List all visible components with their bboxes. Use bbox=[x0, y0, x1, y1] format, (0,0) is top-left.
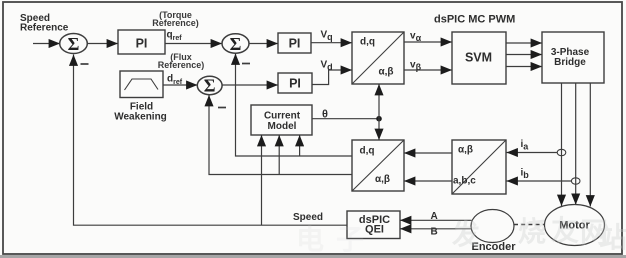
svg-text:烧: 烧 bbox=[518, 216, 546, 247]
wire speed feedback to S1 bbox=[74, 55, 348, 226]
svg-text:Σ: Σ bbox=[204, 76, 216, 96]
svg-text:Speed: Speed bbox=[293, 212, 323, 223]
svg-text:vα: vα bbox=[410, 31, 422, 44]
summing junction S1 (speed) bbox=[60, 34, 88, 54]
watermark bbox=[296, 215, 626, 255]
PI block PI2 (q-axis current controller) bbox=[278, 33, 311, 53]
3-phase bridge block bbox=[542, 32, 604, 83]
field weakening block bbox=[120, 71, 163, 98]
label (Torque Reference) bbox=[152, 10, 199, 28]
wire PI1 to S2 bbox=[165, 43, 222, 45]
dsPIC QEI block bbox=[347, 211, 400, 239]
summing junction S3 (flux) bbox=[197, 76, 222, 96]
wire dq1 to SVM (v-beta) bbox=[404, 69, 452, 71]
svg-text:Model: Model bbox=[268, 121, 297, 132]
svg-text:α,β: α,β bbox=[458, 145, 473, 156]
current tap node ia bbox=[557, 149, 566, 155]
bottom border shadow bar bbox=[0, 255, 626, 258]
svg-text:PI: PI bbox=[289, 37, 301, 51]
PI block PI1 (speed controller) bbox=[118, 30, 165, 54]
svg-text:Σ: Σ bbox=[68, 34, 80, 54]
current model block bbox=[251, 105, 312, 135]
minus sign at S1 bbox=[81, 63, 89, 65]
wire shaft coupling (dashed) bbox=[514, 224, 545, 226]
wire current model input speed bbox=[261, 135, 263, 225]
label Speed Reference bbox=[20, 13, 69, 34]
wire SVM to bridge 2 bbox=[506, 54, 542, 56]
wire encoder A to QEI bbox=[400, 219, 472, 221]
wire bridge phase C to motor bbox=[589, 83, 591, 207]
svg-text:Bridge: Bridge bbox=[554, 57, 586, 68]
wire theta from current model bbox=[312, 118, 379, 120]
svg-text:Reference): Reference) bbox=[152, 18, 199, 28]
wire ib to abc block bbox=[507, 180, 572, 182]
encoder bbox=[471, 210, 516, 254]
svg-text:PI: PI bbox=[136, 37, 148, 51]
svg-text:子: 子 bbox=[336, 224, 364, 255]
svg-text:α,β: α,β bbox=[379, 67, 394, 78]
svg-text:ia: ia bbox=[521, 139, 530, 152]
wire ia to abc block bbox=[507, 152, 558, 154]
wire PI2 to dq1 bbox=[311, 42, 352, 44]
wire speed reference input arrow bbox=[33, 43, 60, 45]
wire FW to S3 bbox=[163, 84, 198, 86]
wire id feedback to S3 bbox=[209, 95, 352, 175]
wire current model input id bbox=[278, 135, 280, 175]
svg-text:电: 电 bbox=[296, 224, 324, 255]
node junction theta bbox=[376, 116, 382, 122]
SVM block bbox=[452, 32, 506, 84]
svg-text:Vq: Vq bbox=[321, 30, 333, 43]
wire dq1 to SVM (v-alpha) bbox=[404, 41, 452, 43]
svg-text:Σ: Σ bbox=[230, 34, 242, 54]
summing junction S2 (torque) bbox=[222, 34, 249, 54]
label Field Weakening bbox=[114, 101, 167, 122]
svg-text:友: 友 bbox=[551, 215, 579, 246]
transform block abc (alpha-beta to abc / Clarke) bbox=[452, 140, 506, 194]
svg-text:Weakening: Weakening bbox=[114, 111, 167, 122]
wire bridge phase B to motor bbox=[575, 83, 577, 205]
wire SVM to bridge 1 bbox=[506, 42, 542, 44]
svg-text:SVM: SVM bbox=[465, 51, 492, 65]
wire S1 to PI1 bbox=[88, 43, 119, 45]
minus sign at S2 bbox=[242, 63, 250, 65]
wire abc to dq2 (i-beta) bbox=[404, 180, 452, 182]
wire S2 to PI2 bbox=[249, 43, 278, 45]
wire current model input iq bbox=[299, 135, 301, 156]
svg-text:ib: ib bbox=[521, 168, 530, 181]
current tap node ib bbox=[571, 178, 580, 184]
svg-text:d,q: d,q bbox=[360, 37, 375, 48]
wire iq feedback to S2 bbox=[236, 54, 353, 157]
svg-text:Current: Current bbox=[264, 111, 301, 122]
svg-text:QEI: QEI bbox=[365, 224, 384, 236]
minus sign at S3 bbox=[218, 107, 226, 109]
transform block dq2 (alpha-beta to dq / Park) bbox=[352, 140, 404, 191]
motor bbox=[545, 205, 605, 246]
svg-text:Reference: Reference bbox=[20, 23, 69, 34]
wire encoder B to QEI bbox=[400, 228, 472, 230]
transform block dq1 (dq to alpha-beta) bbox=[352, 32, 404, 84]
svg-text:dsPIC MC PWM: dsPIC MC PWM bbox=[434, 13, 515, 25]
svg-text:发: 发 bbox=[451, 218, 480, 250]
wire theta down to dq2 bbox=[378, 119, 380, 140]
wire S3 to PI3 bbox=[222, 84, 278, 86]
wire bridge phase A to motor bbox=[561, 83, 563, 206]
svg-text:α,β: α,β bbox=[375, 174, 390, 185]
svg-text:d,q: d,q bbox=[360, 145, 375, 156]
wire PI3 to dq1 (jog up) bbox=[312, 70, 352, 85]
wire abc to dq2 (i-alpha) bbox=[404, 152, 452, 154]
label (Flux Reference) bbox=[158, 52, 205, 70]
svg-text:a,b,c: a,b,c bbox=[453, 176, 476, 187]
svg-text:PI: PI bbox=[289, 77, 301, 91]
svg-text:Reference): Reference) bbox=[158, 60, 205, 70]
wire SVM to bridge 3 bbox=[506, 66, 542, 68]
wire theta up to dq1 bbox=[378, 84, 380, 119]
svg-text:站: 站 bbox=[599, 222, 626, 253]
PI block PI3 (d-axis current controller) bbox=[278, 73, 312, 93]
